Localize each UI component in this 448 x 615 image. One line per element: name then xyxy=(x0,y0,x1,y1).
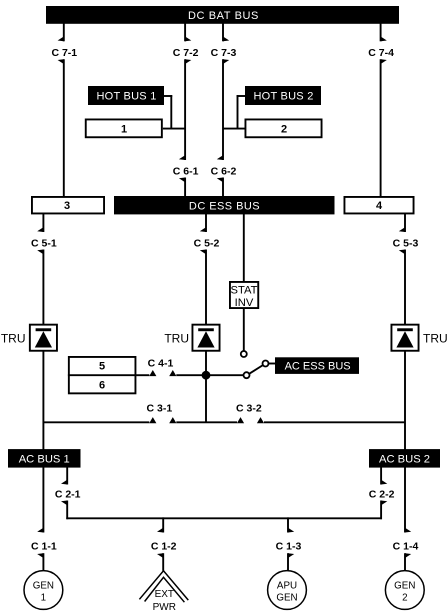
svg-text:APU: APU xyxy=(277,580,297,591)
svg-text:C 7-3: C 7-3 xyxy=(211,47,237,59)
svg-text:C 1-4: C 1-4 xyxy=(393,541,419,553)
svg-text:3: 3 xyxy=(64,200,70,212)
svg-text:C 5-3: C 5-3 xyxy=(393,238,419,250)
svg-text:2: 2 xyxy=(281,123,287,135)
svg-text:AC BUS 1: AC BUS 1 xyxy=(19,453,70,465)
svg-text:1: 1 xyxy=(121,123,127,135)
svg-text:C 2-2: C 2-2 xyxy=(369,489,395,501)
svg-text:EXT: EXT xyxy=(155,589,174,600)
svg-text:C 3-2: C 3-2 xyxy=(236,402,262,414)
svg-text:2: 2 xyxy=(402,593,407,604)
svg-text:TRU: TRU xyxy=(1,331,26,345)
svg-text:INV: INV xyxy=(235,297,254,309)
svg-text:HOT BUS 1: HOT BUS 1 xyxy=(96,91,156,103)
svg-text:C 7-4: C 7-4 xyxy=(368,47,394,59)
svg-text:4: 4 xyxy=(376,200,383,212)
svg-text:TRU: TRU xyxy=(164,331,189,345)
svg-text:C 1-1: C 1-1 xyxy=(31,541,57,553)
svg-text:STAT: STAT xyxy=(231,284,258,296)
svg-text:DC ESS BUS: DC ESS BUS xyxy=(189,200,260,212)
svg-text:C 7-2: C 7-2 xyxy=(173,47,199,59)
svg-text:C 1-3: C 1-3 xyxy=(276,541,302,553)
svg-text:C 6-2: C 6-2 xyxy=(211,166,237,178)
svg-text:HOT BUS 2: HOT BUS 2 xyxy=(253,91,313,103)
svg-text:C 1-2: C 1-2 xyxy=(151,541,177,553)
svg-text:C 5-1: C 5-1 xyxy=(31,238,57,250)
svg-text:C 7-1: C 7-1 xyxy=(51,47,77,59)
svg-text:GEN: GEN xyxy=(276,593,297,604)
svg-text:AC ESS BUS: AC ESS BUS xyxy=(285,360,351,372)
svg-text:DC BAT BUS: DC BAT BUS xyxy=(188,10,259,22)
svg-text:GEN: GEN xyxy=(33,580,54,591)
svg-text:1: 1 xyxy=(41,593,46,604)
svg-text:C 4-1: C 4-1 xyxy=(148,357,174,369)
svg-text:AC BUS 2: AC BUS 2 xyxy=(379,453,430,465)
svg-text:6: 6 xyxy=(99,380,105,392)
svg-text:C 6-1: C 6-1 xyxy=(173,166,199,178)
svg-text:PWR: PWR xyxy=(153,602,176,613)
svg-text:5: 5 xyxy=(99,360,105,372)
svg-text:C 2-1: C 2-1 xyxy=(55,489,81,501)
svg-text:C 3-1: C 3-1 xyxy=(147,402,173,414)
svg-text:TRU: TRU xyxy=(423,331,448,345)
svg-text:GEN: GEN xyxy=(394,580,415,591)
svg-text:C 5-2: C 5-2 xyxy=(194,238,220,250)
